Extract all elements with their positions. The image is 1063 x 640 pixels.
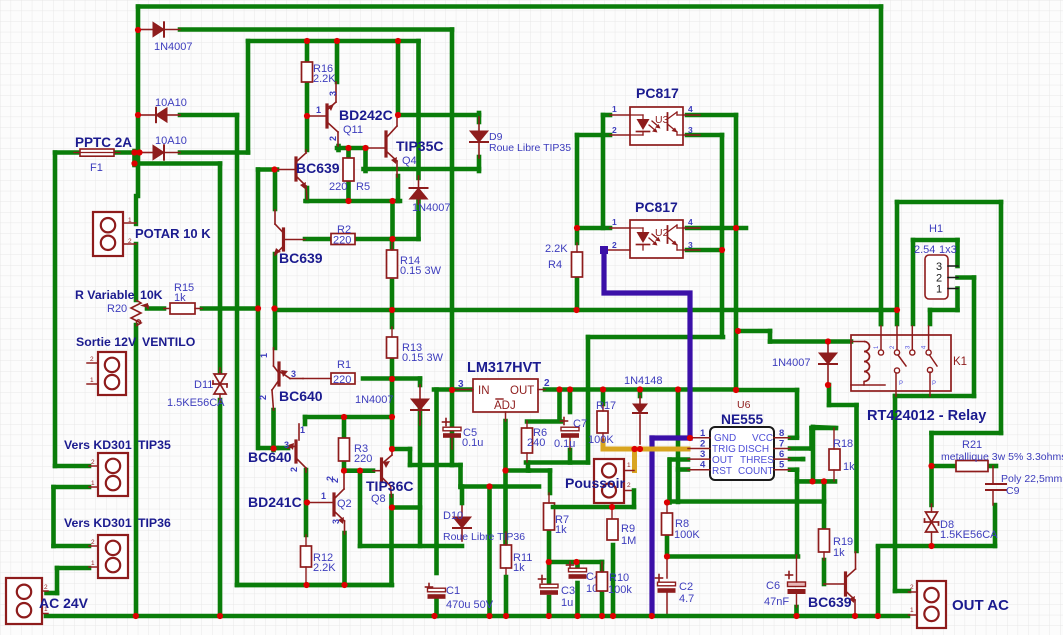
diode D4 1N4007 mid [418, 176, 420, 188]
svg-text:TIP36C: TIP36C [366, 478, 413, 494]
svg-text:2.2K: 2.2K [545, 243, 568, 255]
relay K1 RT424012 [851, 335, 951, 391]
resistor R18 [829, 449, 840, 470]
wire H1 pin1 drop [955, 289, 960, 311]
svg-text:1.5KE56CA: 1.5KE56CA [940, 529, 998, 541]
resistor R2 [331, 234, 355, 245]
transistor Q8 TIP36C [373, 470, 381, 472]
resistor R1 [331, 373, 355, 384]
wire U2 pin1 link [577, 226, 610, 231]
junction dots [135, 27, 141, 33]
wire C1 top feed [434, 546, 439, 573]
svg-text:1N4148: 1N4148 [624, 375, 663, 387]
wire BC640-2 collector down to BD241C base node [304, 470, 309, 535]
wire bottom gnd bus [46, 614, 908, 619]
svg-text:4: 4 [688, 104, 693, 114]
svg-text:2: 2 [44, 584, 48, 591]
svg-text:Poly 22,5mm: Poly 22,5mm [1001, 473, 1063, 485]
wire R13 bottom to OUT node [390, 358, 395, 379]
svg-text:1: 1 [91, 480, 95, 487]
svg-text:BC639: BC639 [808, 594, 852, 610]
wire U3 pin4 stub [687, 113, 736, 118]
svg-text:1k: 1k [555, 524, 567, 536]
svg-text:2: 2 [325, 476, 335, 481]
svg-text:2: 2 [128, 238, 132, 245]
wire 1N4007 D out to LM317 column [180, 27, 452, 32]
wire BD242C collector to TIP35C base [337, 146, 366, 151]
svg-text:2: 2 [910, 584, 914, 591]
svg-text:H1: H1 [929, 223, 943, 235]
wire C3 bottom to bus [547, 597, 552, 616]
svg-text:4: 4 [688, 217, 693, 227]
wire gnd spur drop to bus [487, 487, 492, 617]
svg-text:1k: 1k [833, 547, 845, 559]
wire 1N4007-2 vertical [416, 41, 421, 178]
wire NE555 out chain [670, 457, 688, 462]
wire R2 right [355, 237, 393, 242]
wire relay aux y427 [813, 427, 836, 428]
wire VCC riser x736 [734, 115, 739, 390]
fuse F1 [80, 149, 114, 156]
svg-text:Q4: Q4 [402, 155, 417, 167]
wire POTAR to R20 [134, 244, 139, 300]
svg-text:Roue Libre TIP36: Roue Libre TIP36 [443, 531, 525, 543]
wire fuse left [55, 150, 80, 155]
svg-text:R Variable: R Variable [75, 288, 135, 302]
wire y201 to R2 node [390, 201, 395, 239]
resistor R6 [522, 428, 533, 453]
svg-text:Poussoir: Poussoir [565, 475, 625, 491]
wire bottom horizontal to TIP36C emitter [237, 583, 392, 588]
svg-text:10K: 10K [140, 288, 163, 302]
wire count link y481 [797, 479, 835, 484]
wire R3 top [342, 417, 347, 438]
resistor R16 [302, 62, 313, 82]
wire R4 bottom to bus [575, 277, 580, 310]
wire TIP35C collector node vertical [396, 41, 401, 115]
wire PC817 pin3 vertical [720, 135, 725, 337]
wire opto emitter net riser [586, 337, 591, 463]
wire BD242C emitter to rail [335, 41, 340, 82]
svg-text:1u: 1u [561, 597, 573, 609]
svg-text:Vers KD301: Vers KD301 [64, 438, 132, 452]
wire R18 top link [812, 426, 835, 431]
wire gnd spur y486 [461, 484, 540, 489]
transistor Q BC639 relay driver [824, 583, 845, 585]
wire R10 top [600, 562, 605, 572]
diode D5 1N4007 at OUT node [419, 385, 421, 399]
wire OUT 12V rail y390 [545, 387, 736, 392]
capacitor C4 [567, 564, 574, 566]
wire OUT node to 1N4007-3 [392, 376, 420, 381]
wire TIP36C emitter vertical [389, 496, 394, 585]
svg-text:VCC: VCC [752, 433, 773, 444]
wire 10A10 out to long left vertical [180, 113, 237, 118]
svg-text:NE555: NE555 [721, 412, 764, 427]
svg-text:OUT AC: OUT AC [952, 597, 1009, 614]
wire relay pin2 stub below bus [895, 310, 900, 324]
svg-text:3: 3 [331, 519, 341, 524]
svg-text:TIP36: TIP36 [138, 516, 171, 530]
wire RST riser [676, 390, 681, 503]
wire 1N4148 top [638, 390, 643, 397]
wire top +24V rail [138, 4, 881, 9]
wire R6 tap [557, 390, 562, 422]
svg-text:1N4007: 1N4007 [154, 41, 193, 53]
svg-text:C1: C1 [446, 585, 460, 597]
wire fuse right [114, 150, 139, 155]
capacitor C9 Poly [992, 466, 994, 484]
wire BC640-1 base feed [273, 309, 278, 349]
svg-text:R18: R18 [833, 438, 853, 450]
svg-text:C6: C6 [766, 580, 780, 592]
wire BC639-2 emitter down to bus dot [273, 254, 278, 309]
transistor Q11 BD242C [307, 115, 326, 117]
wire R7 bottom [547, 532, 552, 563]
relay switch 2 [930, 355, 938, 366]
wire R1 right to OUT node [363, 376, 392, 381]
svg-text:47nF: 47nF [764, 596, 789, 608]
svg-text:BC639: BC639 [296, 160, 340, 176]
wire COUNT down to C6 [795, 470, 800, 555]
wire OUT node down [390, 379, 395, 450]
wire NE555 pin5 stub [790, 467, 797, 472]
svg-text:2: 2 [544, 378, 550, 389]
purple pin2 junction [600, 246, 608, 254]
svg-text:R17: R17 [596, 400, 616, 412]
wire switch2 chain [929, 433, 934, 466]
diode D11 TVS 1.5KE56CA [219, 368, 221, 374]
svg-text:100k: 100k [608, 584, 632, 596]
wire R13 node down [390, 310, 395, 327]
svg-text:C7: C7 [573, 418, 587, 430]
wire U2 pin4 stub [687, 226, 746, 231]
wire TIP35C emitter down [396, 176, 401, 201]
wire TIP36C emitter node to x410 [394, 447, 410, 452]
transistor BC640 first [273, 348, 275, 366]
svg-text:C2: C2 [679, 581, 693, 593]
svg-text:7: 7 [779, 439, 784, 450]
svg-text:LM317HVT: LM317HVT [467, 360, 541, 376]
diode D3 10A10 [141, 152, 153, 154]
wire R15 right to x258 [202, 306, 258, 311]
wire fuse output to diodes column [132, 151, 137, 165]
wire PC817 pin1 link [603, 113, 610, 118]
wire opto emitter net y337 [588, 335, 723, 340]
svg-text:1: 1 [316, 105, 321, 115]
wire R21 left stub [933, 464, 956, 469]
wire yellow poussoir drop [632, 449, 637, 471]
svg-text:BC639: BC639 [279, 250, 323, 266]
wire snubber gnd riser [876, 547, 881, 616]
svg-text:2: 2 [90, 356, 94, 363]
wire U2 pin3 stub [687, 248, 722, 253]
svg-text:0.1u: 0.1u [554, 438, 575, 450]
potentiometer R20 R Variable 10K [131, 300, 141, 326]
svg-text:2: 2 [612, 240, 617, 250]
resistor R17 [597, 411, 608, 433]
svg-text:R5: R5 [356, 181, 370, 193]
diode D8 TVS 1.5KE56CA [931, 504, 933, 512]
resistor R7 [544, 503, 555, 530]
wire H1 pin2 link [958, 275, 975, 280]
svg-text:P: P [932, 381, 936, 387]
wire H1 pin3 loop [913, 238, 958, 243]
wire BD241C base link [304, 500, 309, 505]
svg-text:BC640: BC640 [279, 388, 323, 404]
svg-text:TIP35C: TIP35C [396, 138, 443, 154]
wire R5 top stub [346, 148, 351, 158]
wire C4 bottom to bus [575, 583, 580, 616]
svg-text:8: 8 [779, 428, 784, 439]
svg-text:1: 1 [321, 491, 326, 501]
wire U3 pin3 stub [687, 133, 722, 138]
resistor R19 [819, 529, 830, 552]
svg-text:C9: C9 [1006, 485, 1020, 497]
wire adj net y462 [526, 460, 588, 465]
wire D10 return horizontal [360, 544, 462, 549]
wire sortie chain x55 [53, 153, 58, 467]
wire R19 bottom link [822, 560, 827, 584]
svg-text:BD241C: BD241C [248, 494, 302, 510]
wire TIP35C collector to D9 [398, 113, 479, 118]
connector S1 Poussoir [594, 459, 624, 503]
svg-text:Q11: Q11 [343, 124, 363, 136]
wire C2 bottom pin [666, 593, 668, 614]
svg-text:2: 2 [258, 395, 268, 400]
svg-text:GND: GND [714, 433, 736, 444]
wire gnd net purple to NE555 GND [652, 435, 690, 440]
wire y465 link [410, 463, 452, 468]
wire R19 top drop [822, 481, 827, 529]
connector AC 24V [6, 578, 42, 624]
svg-text:3: 3 [458, 379, 464, 390]
svg-text:3: 3 [936, 261, 942, 273]
svg-text:2: 2 [700, 439, 705, 450]
svg-text:1: 1 [612, 104, 617, 114]
wire poussoir pin2 chain [632, 491, 637, 508]
wire D11 to bottom bus [218, 400, 223, 616]
resistor R11 [501, 545, 512, 568]
wire x436 vertical from OUT-IN node [434, 390, 439, 547]
wire relay out y396 [895, 394, 974, 399]
svg-text:100K: 100K [674, 529, 700, 541]
wire out chain y501 [670, 499, 825, 504]
resistor R5 [343, 158, 354, 181]
wire main DC vertical to LM317 IN [450, 30, 455, 391]
diode D9 Roue Libre TIP35 [478, 117, 480, 131]
wire right rail down to relay coil pin1 [879, 7, 884, 325]
wire x258 vertical [256, 170, 261, 309]
wire freewheel loop horizontal y169 [364, 167, 480, 172]
svg-text:4: 4 [700, 460, 706, 471]
svg-text:D10: D10 [443, 510, 463, 522]
wire D8 top link [929, 466, 934, 505]
resistor R21 [956, 461, 988, 472]
wire R8 bottom node [665, 535, 670, 557]
wire D10 return vertical [358, 471, 363, 546]
transistor Q2 BD241C [306, 502, 333, 504]
wire R5 bottom stub [346, 181, 351, 201]
resistor R10 [597, 572, 608, 591]
svg-text:TIP35: TIP35 [138, 438, 171, 452]
wire R14 top [390, 239, 395, 250]
wire KD301 TIP35 pin1 link [54, 485, 90, 490]
svg-text:BC640: BC640 [248, 449, 292, 465]
wire C2 top pin [666, 557, 668, 579]
wire U3 pin2 link [577, 133, 610, 138]
wire H1 right drop [999, 202, 1004, 433]
wire base node y417 [305, 415, 392, 420]
wire C6 bottom to bus [794, 607, 799, 616]
svg-text:Q8: Q8 [371, 493, 386, 505]
wire R15 left stub [147, 306, 164, 311]
wire horizontal to D11 branch [135, 161, 221, 166]
svg-text:1M: 1M [621, 535, 636, 547]
connector Sortie 12V VENTILO [98, 352, 126, 395]
svg-text:1: 1 [259, 353, 269, 358]
wire trigger net yellow [603, 441, 688, 449]
wire IN node horizontal [434, 387, 473, 392]
svg-text:1: 1 [627, 462, 631, 469]
wire NE555 pin6 stub [790, 457, 803, 462]
svg-text:THRES: THRES [740, 455, 774, 466]
svg-text:POTAR 10 K: POTAR 10 K [135, 226, 211, 241]
svg-text:AC 24V: AC 24V [39, 595, 89, 611]
svg-text:1: 1 [300, 425, 305, 435]
wire 10A10-2 out going up [180, 150, 248, 155]
wire NE555 pin8 stub [790, 435, 797, 440]
wire R20 to bottom bus [134, 325, 139, 616]
wire NE555 pin7 stub [790, 446, 812, 451]
svg-text:1k: 1k [513, 562, 525, 574]
svg-text:R1: R1 [337, 359, 351, 371]
svg-text:1N4007: 1N4007 [412, 202, 451, 214]
svg-text:470u 50V: 470u 50V [446, 599, 494, 611]
wire y170 link [258, 167, 277, 172]
wire base wire TIP36C [344, 468, 373, 473]
wire upper rail to 1N4007-2 [248, 39, 419, 44]
wire R14 bottom to bus [390, 281, 395, 310]
svg-text:10A10: 10A10 [155, 135, 187, 147]
svg-text:metallique 3w 5% 3.3ohms: metallique 3w 5% 3.3ohms [941, 451, 1063, 463]
svg-text:D11: D11 [194, 379, 213, 391]
transistor TIP35C Q4 [366, 147, 385, 149]
wire C3 top [547, 563, 552, 584]
svg-text:F1: F1 [90, 162, 103, 174]
svg-text:3: 3 [700, 449, 705, 460]
connector OUT AC [917, 581, 946, 628]
svg-text:PPTC 2A: PPTC 2A [75, 135, 132, 150]
svg-text:0.1u: 0.1u [462, 437, 483, 449]
wire left vertical from top rail to POTAR [136, 7, 141, 197]
wire OUT AC pin2 link [895, 589, 909, 594]
wire VCC corner to NE555 pin8 [736, 388, 797, 393]
svg-text:IN: IN [478, 385, 490, 397]
diode D2 10A10 [141, 114, 155, 116]
wire C7 tap [568, 390, 573, 413]
svg-text:Sortie 12V: Sortie 12V [76, 335, 137, 349]
wire R2 left to BC639 base [305, 237, 331, 242]
svg-text:BD242C: BD242C [339, 107, 393, 123]
svg-text:DISCH: DISCH [738, 444, 769, 455]
svg-text:U3: U3 [655, 114, 669, 126]
connector Vers KD301 TIP36 [98, 535, 128, 578]
svg-text:K1: K1 [953, 356, 967, 368]
svg-text:2: 2 [627, 482, 631, 489]
diode D7 1N4007 relay flyback [827, 342, 829, 354]
wire THRES down [801, 457, 806, 462]
wire relay pin1 stub [879, 310, 884, 324]
wire coil feed jog [738, 329, 770, 334]
svg-text:1k: 1k [174, 292, 186, 304]
svg-text:U6: U6 [737, 399, 751, 411]
diode D1 1N4007 top [141, 29, 153, 31]
wire R11 bottom to bus [504, 577, 509, 616]
svg-text:220: 220 [333, 235, 351, 247]
wire trigger rc link y562 [549, 560, 602, 565]
svg-text:1.5KE56CA: 1.5KE56CA [167, 397, 225, 409]
capacitor C2 [656, 577, 663, 579]
resistor R4 [572, 252, 583, 277]
svg-text:220: 220 [354, 453, 372, 465]
svg-text:2.2K: 2.2K [313, 73, 336, 85]
svg-text:1: 1 [91, 560, 95, 567]
wire R6 bottom jog [526, 463, 531, 471]
wire RST stub [678, 467, 688, 472]
wire KD301 TIP36 pin1 link [57, 566, 89, 571]
svg-text:1: 1 [936, 284, 942, 296]
svg-text:2.2K: 2.2K [313, 562, 336, 574]
svg-text:COUNT: COUNT [738, 466, 774, 477]
wire x258 end [256, 309, 261, 449]
svg-text:0.15 3W: 0.15 3W [400, 265, 442, 277]
transistor BC640 second [298, 424, 300, 440]
svg-text:1k: 1k [843, 461, 855, 473]
wire DISCH riser [809, 428, 814, 449]
svg-text:4.7: 4.7 [679, 593, 694, 605]
wire R21 right stub [988, 464, 996, 469]
resistor R14 [387, 250, 398, 278]
wire gnd net purple from U2 pin2 [604, 252, 690, 438]
wire BC639 upper emitter drop [305, 188, 310, 201]
wire relay common riser [895, 202, 900, 310]
wire C1 bottom to bus [434, 600, 439, 616]
wire BC640-2 base drop [303, 417, 308, 424]
svg-text:1: 1 [612, 217, 617, 227]
resistor R15 [170, 303, 195, 314]
resistor R12 [301, 546, 312, 567]
svg-text:0.15 3W: 0.15 3W [402, 352, 444, 364]
wire gnd net purple drop to bus [649, 438, 654, 614]
capacitor C7 [561, 420, 568, 422]
wire R10 bottom to bus [600, 591, 605, 616]
wire Q2 emitter to bottom [342, 533, 347, 585]
svg-text:2: 2 [289, 467, 299, 472]
wire C9 bottom riser [993, 505, 998, 546]
svg-text:3: 3 [291, 369, 296, 379]
svg-text:10A10: 10A10 [155, 97, 187, 109]
wire count filter link y556 [667, 554, 798, 559]
svg-text:2: 2 [91, 459, 95, 466]
wire BC639-3 collector riser [854, 405, 859, 551]
wire coil return jog [827, 385, 832, 405]
wire 1N4007-3 bottom vertical [418, 403, 423, 546]
wire R17 top [601, 390, 606, 405]
wire C5 jog [452, 463, 461, 468]
svg-text:2: 2 [91, 539, 95, 546]
wire x577 vertical [575, 135, 580, 243]
